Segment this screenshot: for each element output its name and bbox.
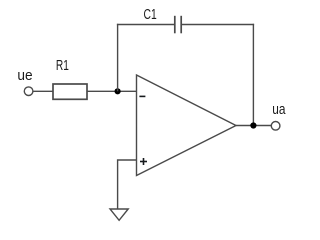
svg-text:ue: ue bbox=[17, 67, 32, 84]
wire ue terminal to R1 bbox=[33, 90, 53, 92]
wire feedback top left segment to C1 bbox=[117, 24, 175, 26]
capacitor C1 bbox=[175, 16, 181, 34]
svg-text:ua: ua bbox=[272, 101, 286, 118]
wire feedback down to output junction bbox=[252, 24, 254, 126]
svg-text:C1: C1 bbox=[144, 6, 157, 23]
minus sign at inverting input bbox=[139, 95, 145, 97]
wire C1 to feedback right corner bbox=[181, 24, 254, 26]
wire R1 to junction A bbox=[87, 90, 118, 92]
op-amp U1 bbox=[137, 75, 237, 176]
wire junction A to op-amp inverting input bbox=[118, 90, 137, 92]
junction node at output bbox=[250, 122, 256, 128]
junction node A (inverting input) bbox=[115, 88, 121, 94]
wire junction A up to feedback bbox=[117, 24, 119, 92]
ground bbox=[110, 209, 128, 220]
terminal ua bbox=[271, 122, 280, 131]
wire op-amp output to terminal ua bbox=[236, 125, 271, 127]
plus sign at non-inverting input bbox=[140, 158, 147, 165]
svg-text:R1: R1 bbox=[56, 57, 69, 74]
terminal ue bbox=[24, 87, 33, 96]
wire non-inverting input to ground bbox=[118, 160, 137, 209]
resistor R1 bbox=[53, 84, 87, 99]
